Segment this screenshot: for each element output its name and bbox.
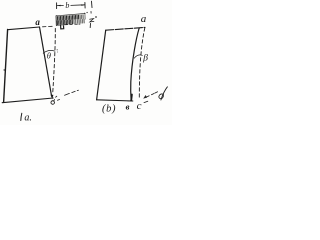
svg-text:a.: a. (24, 113, 32, 124)
plate fill tint (56, 14, 85, 25)
block (a) bottom edge (2, 98, 53, 103)
extra tick under arrow (144, 101, 148, 102)
speck near theta (57, 49, 58, 50)
svg-text:θ: θ (47, 51, 51, 61)
dash-dot line with arrow toward c and label phi (147, 92, 158, 97)
dimension line b over plate (57, 4, 85, 7)
block (b) sheared right face (131, 28, 140, 101)
thick lower end of sheared face (b) (130, 95, 133, 101)
dimension left arrowhead (57, 5, 61, 7)
arrowhead pointing to c (143, 95, 147, 99)
tail of delta (53, 100, 56, 101)
point circle delta below corner b (a) (51, 101, 55, 105)
block (a) top edge (8, 27, 40, 30)
small z mark on axis (90, 19, 94, 22)
svg-text:a: a (35, 17, 40, 27)
svg-text:β: β (142, 53, 148, 63)
dashed vertical reference line (b) (139, 28, 145, 99)
plate hatching (57, 15, 78, 24)
angle arc theta (a) (43, 50, 55, 53)
lighter right hatching (74, 15, 84, 24)
dashed vertical reference line (a) (53, 29, 56, 94)
axis tick (90, 11, 92, 13)
block (a) left edge (4, 30, 8, 103)
dash-dot from corner a going to plate (43, 25, 53, 28)
svg-text:a: a (141, 13, 147, 25)
block (b) left edge (97, 30, 106, 100)
vertical axis dash-dot right of plate (91, 1, 94, 7)
hatched plate cross-section (56, 13, 85, 25)
axis lower dash (89, 23, 91, 27)
angle label phi (161, 87, 168, 100)
arrowhead at bottom of sheared face (a) (51, 95, 54, 100)
block (a) sheared right face (40, 27, 52, 96)
svg-text:в: в (126, 102, 130, 112)
dimension end ticks (57, 2, 86, 8)
block (b) bottom edge (97, 100, 133, 101)
small bracket under plate left (61, 26, 64, 29)
svg-text:b: b (65, 1, 69, 10)
short dash right of corner b (a) (56, 96, 60, 100)
speck near z (95, 16, 97, 18)
caption ( a. (21, 113, 22, 120)
dimension right arrowhead (81, 4, 84, 6)
svg-text:c: c (137, 100, 142, 112)
axis dot (86, 12, 87, 13)
svg-text:(b): (b) (102, 104, 116, 115)
angle arc beta (b) (134, 55, 142, 58)
dashed base line of plate to axis (65, 23, 80, 26)
speck on left edge (3, 69, 4, 70)
dash-dot trajectory line from b rising right (65, 90, 79, 95)
block (b) top edge (106, 27, 145, 30)
